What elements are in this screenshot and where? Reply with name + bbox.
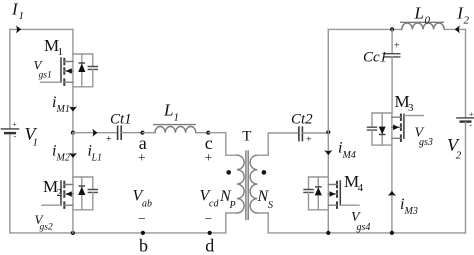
svg-text:2: 2 [464,14,470,26]
wire top right rail [328,28,402,30]
capacitor C2 [88,177,97,210]
node d [208,231,212,235]
inductor L0 [401,22,445,29]
arrow iL1 [92,129,97,137]
svg-text:0: 0 [425,14,431,26]
transformer core [246,151,248,220]
svg-text:1: 1 [174,112,180,124]
wire M3 source [391,145,393,233]
arrow iM3 [388,191,396,196]
node junction left [71,131,75,135]
wire top left [10,28,73,30]
arrow I1 [16,25,21,33]
wire right rail lower [465,122,467,233]
svg-text:3: 3 [408,102,414,114]
wire mid left [73,132,117,134]
svg-text:−: − [138,211,146,226]
transistor M3 [372,113,423,145]
arrow I2 [455,25,460,33]
svg-text:gs2: gs2 [40,223,53,233]
svg-text:T: T [242,128,251,144]
wire Ct2 to M4 node [303,132,328,134]
svg-text:M3: M3 [404,206,418,217]
svg-text:L: L [414,4,424,23]
transistor M1 [41,54,93,87]
wire right rail upper [465,29,467,117]
svg-text:ab: ab [142,199,152,210]
node b [141,231,145,235]
svg-text:L: L [163,101,173,120]
svg-text:1: 1 [19,10,25,22]
node a [140,131,144,135]
svg-text:M4: M4 [342,150,356,161]
svg-text:+: + [306,135,312,146]
svg-text:gs3: gs3 [419,137,433,148]
capacitor C4 [304,177,313,210]
wire left rail lower [9,134,11,233]
svg-text:Ct2: Ct2 [291,112,313,128]
wire secondary top [257,133,298,155]
wire secondary bottom [257,213,268,233]
diode D1 [78,54,85,87]
arrow iM2 [69,153,77,158]
arrow iM4 [324,150,332,155]
wire primary bottom [226,213,237,233]
svg-text:2: 2 [57,187,63,199]
svg-text:+: + [138,150,146,165]
wire riser M4 to top [327,29,329,132]
svg-text:Cc1: Cc1 [363,50,387,66]
transformer primary winding [237,155,244,213]
node Cc1 junction [390,27,394,31]
svg-text:1: 1 [58,46,64,58]
capacitor Cc1 [385,29,400,113]
node M3 bottom [390,231,394,235]
node M4 bottom [326,231,330,235]
svg-text:−: − [205,211,213,226]
svg-text:d: d [205,236,214,255]
svg-text:gs4: gs4 [357,222,371,233]
capacitor C3 [368,113,377,145]
svg-text:Ct1: Ct1 [110,112,132,128]
wire L0 to right rail [444,28,465,30]
node dot secondary [262,170,267,175]
battery V1 [1,129,18,133]
wire left rail upper [9,29,11,128]
wire bottom left [10,232,226,234]
wire bottom right [268,232,465,234]
wire M1 drain [72,29,74,54]
wire M4 drain [327,132,329,177]
capacitor Ct2 [299,127,303,140]
svg-text:gs1: gs1 [39,71,52,81]
transformer secondary winding [250,155,257,213]
wire L1 to node c [196,132,209,134]
capacitor Ct1 [118,126,122,139]
node dot primary [226,170,231,175]
svg-text:M2: M2 [56,153,70,164]
svg-text:-: - [14,132,17,141]
svg-text:+: + [205,150,213,165]
arrow iM1 [69,106,77,111]
wire M2 source [72,210,74,233]
wire node a to L1 [143,132,156,134]
wire Ct1 to node a [122,132,143,134]
diode D4 [315,177,322,210]
svg-text:cd: cd [209,199,219,210]
inductor L1 [154,125,196,133]
svg-text:S: S [268,200,273,211]
svg-text:+: + [469,110,474,119]
transistor M2 [42,177,93,210]
wire node c to primary [208,133,237,156]
node c [206,131,210,135]
wire M1 source [72,87,74,133]
battery V2 [457,118,474,122]
svg-text:L1: L1 [91,153,103,164]
svg-text:1: 1 [33,137,39,149]
svg-text:+: + [394,41,400,52]
svg-text:M1: M1 [56,104,70,115]
diode D3 [379,113,386,145]
svg-text:P: P [229,200,236,211]
diode D2 [78,177,85,210]
wire M2 drain [72,133,74,177]
capacitor C1 [88,54,97,87]
wire M4 source [327,210,329,233]
node M2 bottom [71,231,75,235]
svg-text:+: + [12,120,17,129]
node M4 junction [326,130,330,134]
svg-text:4: 4 [358,182,364,194]
transistor M4 [309,177,360,210]
svg-text:2: 2 [456,150,462,162]
svg-text:b: b [139,236,148,255]
svg-text:-: - [469,121,472,130]
svg-text:+: + [106,134,112,145]
